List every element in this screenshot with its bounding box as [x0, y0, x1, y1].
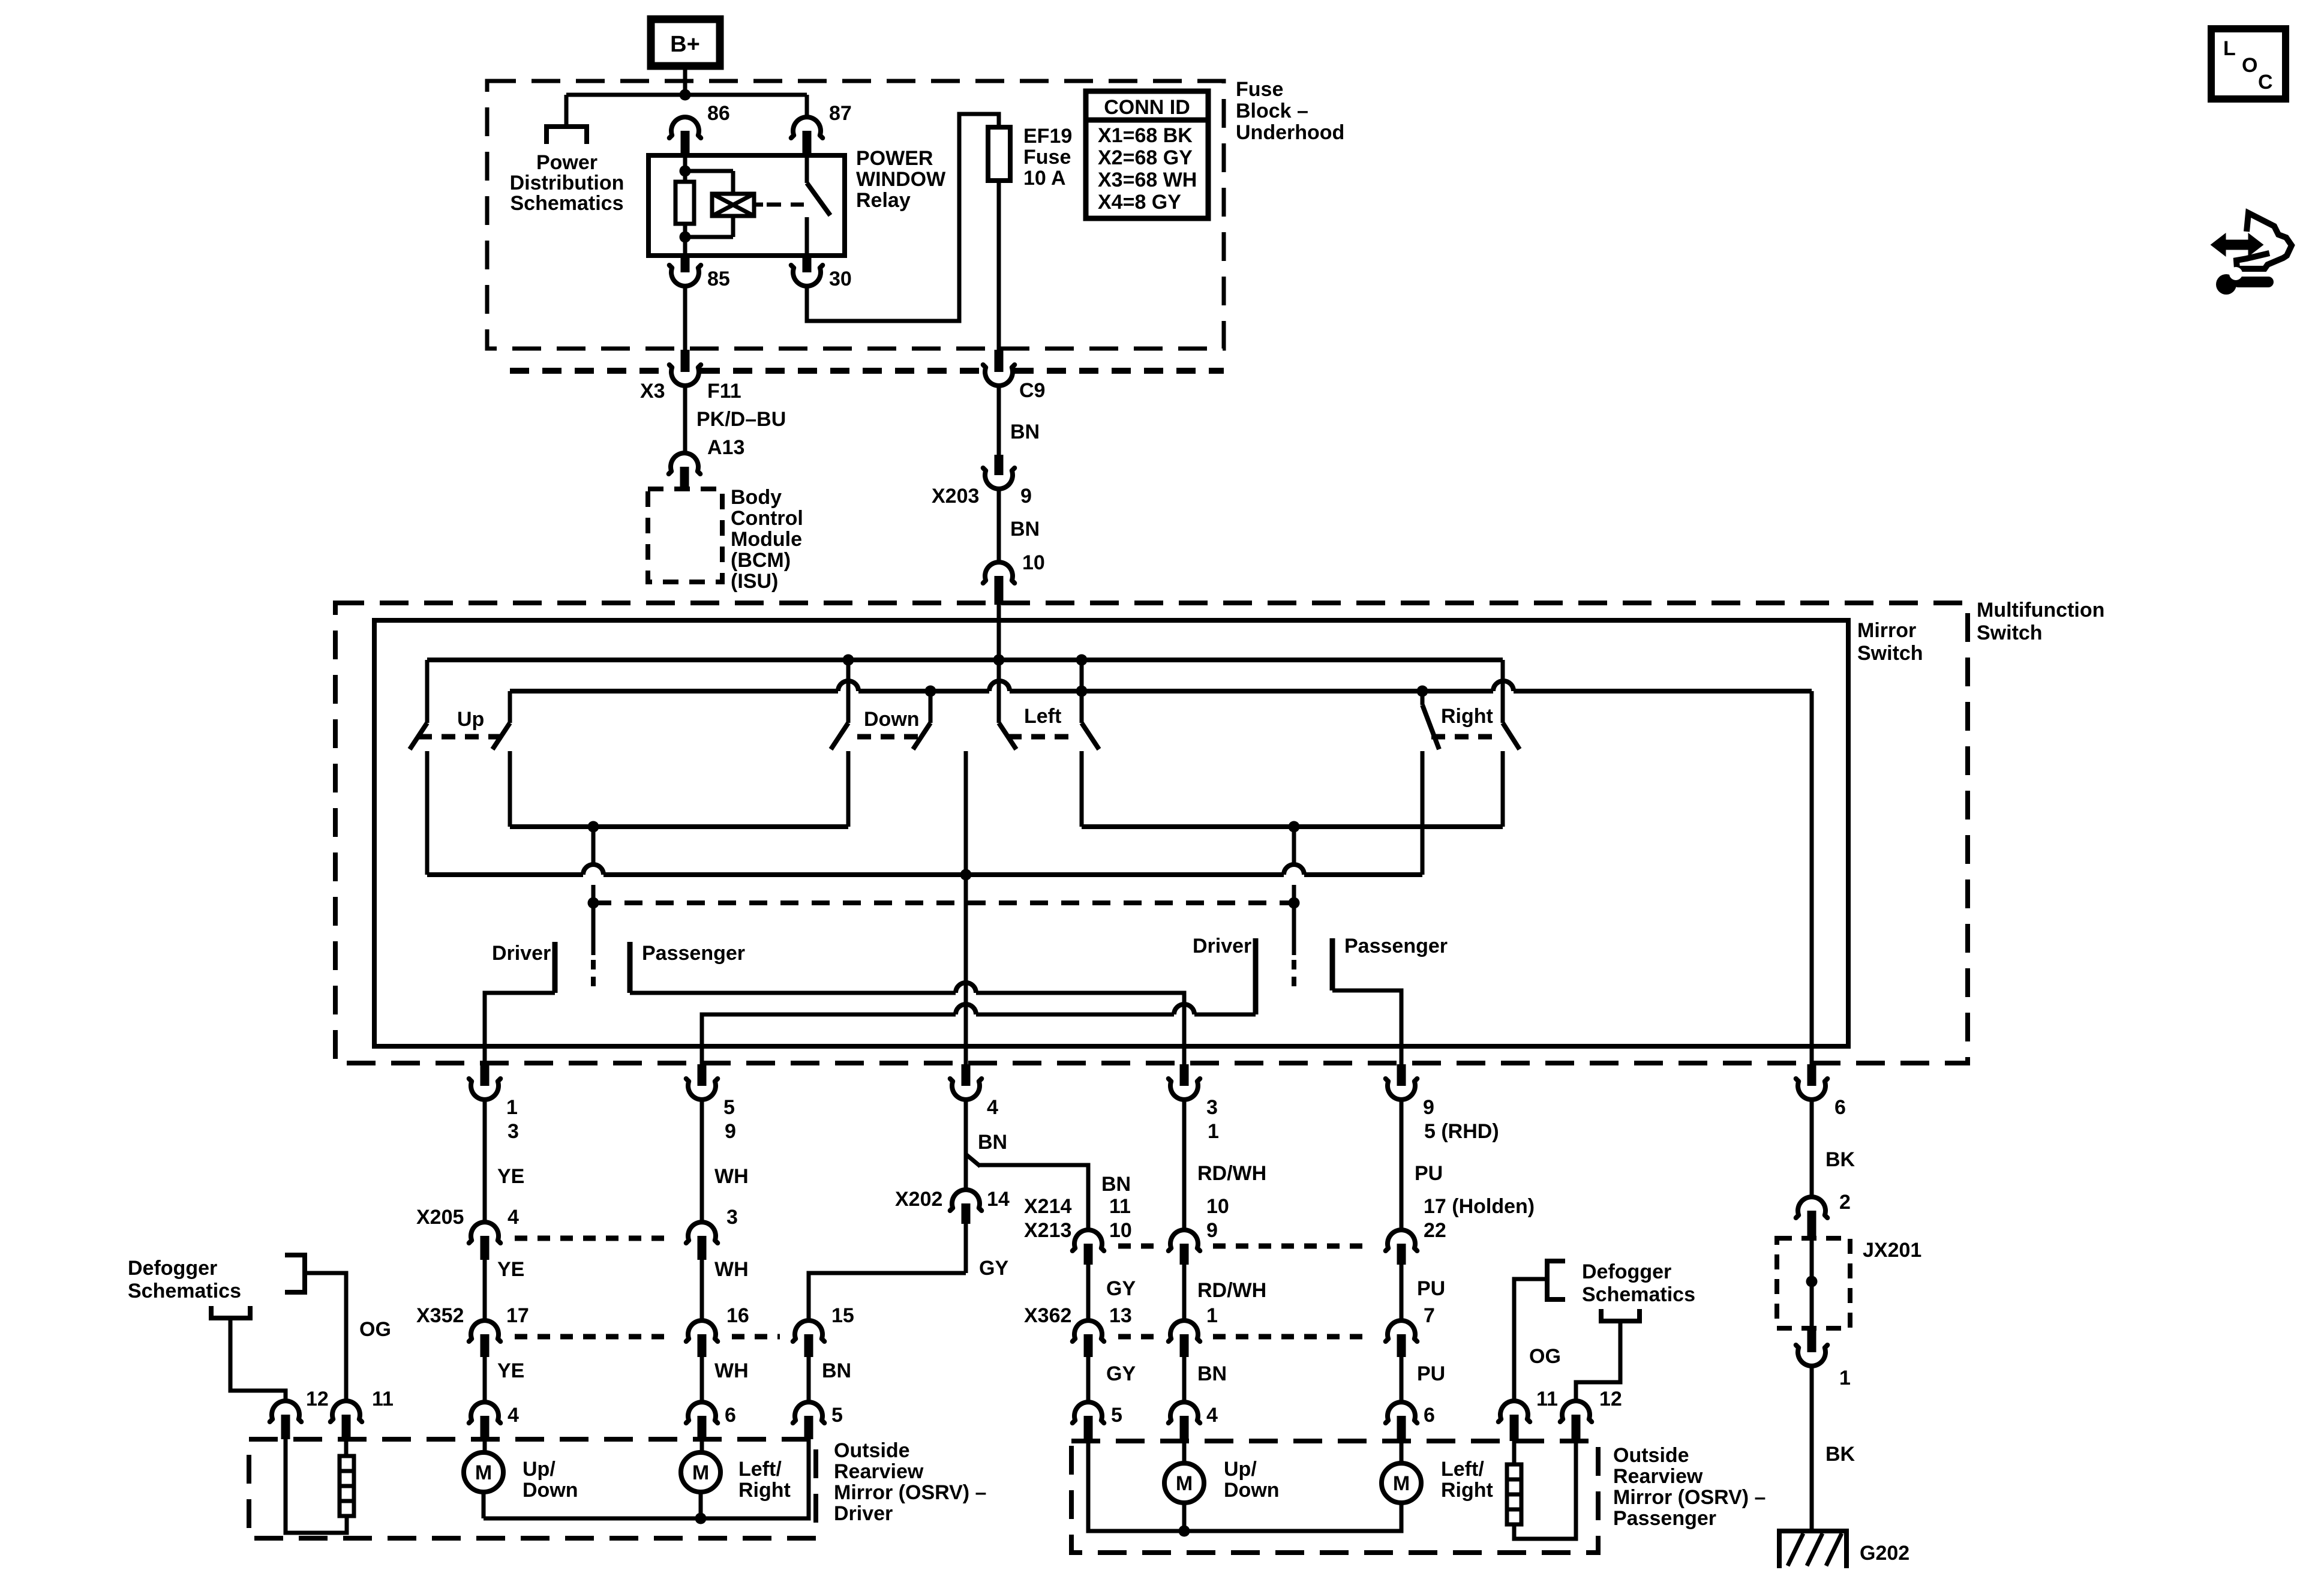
svg-text:A13: A13 — [707, 436, 744, 459]
svg-text:OG: OG — [359, 1318, 391, 1341]
off-page bracket defogger left lower — [211, 1306, 250, 1318]
motor driver left right — [681, 1452, 720, 1492]
svg-text:Driver: Driver — [492, 942, 551, 965]
outside rearview mirror passenger dashed box — [1071, 1441, 1598, 1553]
down switch left lead — [846, 660, 851, 723]
wire YE lower — [483, 1357, 487, 1401]
connector X205 dashed row — [515, 1236, 672, 1241]
svg-text:L: L — [2223, 37, 2236, 60]
relay coil branch wire — [683, 155, 687, 182]
svg-text:X203: X203 — [932, 485, 979, 508]
connector X352 pin 17 — [469, 1320, 501, 1341]
relay pin 87 connector — [791, 117, 823, 138]
LOC reference icon — [2211, 29, 2286, 99]
driver mirror pin 6 — [686, 1402, 718, 1423]
svg-text:X3=68 WH: X3=68 WH — [1098, 169, 1197, 191]
ground G202 — [1779, 1531, 1846, 1568]
wire passenger output 3 — [630, 991, 956, 995]
svg-text:X213: X213 — [1024, 1219, 1071, 1242]
B+ battery feed box — [651, 19, 720, 66]
wire defogger right feed — [1576, 1321, 1620, 1400]
down switch left blade — [831, 723, 848, 749]
up switch linkage — [418, 734, 503, 740]
signal rail left segment — [510, 824, 848, 829]
svg-text:Down: Down — [864, 708, 920, 731]
right selector driver contact bar — [1253, 938, 1259, 1014]
right switch left lower lead — [1421, 751, 1425, 875]
wire BK column upper — [1810, 1101, 1814, 1196]
svg-text:Defogger: Defogger — [128, 1257, 217, 1280]
wire driver leftright motor — [700, 1439, 704, 1452]
wire BK to ground — [1810, 1365, 1814, 1531]
connector A13 into BCM — [669, 453, 701, 474]
svg-text:4: 4 — [508, 1206, 519, 1229]
left switch right lower lead — [1080, 751, 1084, 827]
svg-text:5 (RHD): 5 (RHD) — [1424, 1120, 1499, 1143]
svg-text:Up: Up — [457, 708, 484, 731]
wire BN lower driver — [807, 1357, 811, 1401]
svg-text:3: 3 — [1206, 1096, 1218, 1119]
svg-text:1: 1 — [1839, 1367, 1851, 1389]
svg-text:Driver: Driver — [834, 1502, 893, 1525]
defogger element right — [1507, 1464, 1521, 1524]
connector X352 pin 16 — [686, 1320, 718, 1341]
junction JX201 dashed box — [1777, 1238, 1850, 1328]
svg-text:Up/: Up/ — [1224, 1458, 1257, 1481]
svg-text:Outside: Outside — [834, 1439, 910, 1462]
defogger element right wires — [1512, 1441, 1517, 1464]
shared lower contact lead — [964, 751, 968, 875]
svg-text:11: 11 — [1109, 1195, 1131, 1218]
wire GY passenger common mid — [1086, 1265, 1091, 1319]
wire PU column upper — [1400, 1101, 1404, 1229]
svg-text:9: 9 — [1206, 1219, 1218, 1242]
motor passenger up down — [1164, 1463, 1204, 1503]
relay coil actuator dashed link — [754, 203, 763, 207]
svg-text:5: 5 — [831, 1404, 843, 1427]
svg-text:17: 17 — [506, 1304, 529, 1327]
svg-text:9: 9 — [725, 1120, 736, 1143]
signal rail right segment — [1082, 824, 1503, 829]
wire defogger left feed — [230, 1318, 286, 1400]
svg-text:X4=8 GY: X4=8 GY — [1098, 191, 1181, 214]
conn id table — [1086, 91, 1208, 218]
svg-text:10: 10 — [1022, 551, 1045, 574]
svg-text:Passenger: Passenger — [1344, 935, 1448, 957]
connector row X3 C9 dashed line — [510, 368, 669, 374]
bus wire from B+ — [566, 93, 807, 97]
connector X202 pin 14 — [950, 1190, 982, 1211]
svg-text:3: 3 — [726, 1206, 738, 1229]
wire OG right — [1514, 1279, 1547, 1400]
mirror switch output connector pin 1 — [469, 1079, 501, 1100]
svg-text:86: 86 — [707, 102, 730, 125]
driver mirror common bus — [484, 1439, 809, 1518]
wire pin 30 to fuse — [807, 114, 999, 321]
wire X203 to mirror switch — [997, 488, 1001, 562]
wire PU mid — [1400, 1265, 1404, 1319]
svg-text:2: 2 — [1839, 1191, 1851, 1214]
svg-text:M: M — [1393, 1472, 1410, 1495]
wire bus to pin 87 — [805, 95, 809, 116]
svg-text:Control: Control — [731, 507, 803, 530]
svg-text:RD/WH: RD/WH — [1197, 1279, 1266, 1302]
svg-text:BN: BN — [1010, 421, 1040, 443]
svg-text:30: 30 — [829, 268, 852, 290]
wire driver updown motor — [483, 1439, 487, 1452]
left selector pole open contact — [591, 960, 596, 991]
multifunction switch dashed box — [335, 603, 1968, 1063]
svg-text:11: 11 — [1536, 1388, 1558, 1410]
svg-text:4: 4 — [987, 1096, 998, 1119]
svg-text:Right: Right — [738, 1479, 791, 1502]
connector X214 X213 pin 11 10 — [1073, 1230, 1104, 1251]
connector X214 X213 pin 10 9 — [1169, 1230, 1200, 1251]
svg-text:Up/: Up/ — [523, 1458, 556, 1481]
wire BN common upper — [964, 1101, 968, 1188]
svg-text:Underhood: Underhood — [1236, 121, 1344, 144]
down switch right lead — [929, 691, 933, 723]
wire pin 85 down to X3 — [683, 286, 687, 352]
svg-text:RD/WH: RD/WH — [1197, 1162, 1266, 1185]
wire WH column upper — [700, 1101, 704, 1221]
wire OG left — [305, 1273, 346, 1400]
defogger element left wires — [344, 1439, 349, 1456]
wire B+ to bus — [683, 66, 687, 95]
svg-text:X3: X3 — [640, 380, 665, 403]
svg-text:OG: OG — [1529, 1345, 1561, 1368]
connector X362 pin 13 — [1073, 1320, 1104, 1341]
svg-text:10: 10 — [1109, 1219, 1132, 1242]
svg-text:Fuse: Fuse — [1236, 78, 1283, 101]
wire driver output 5 — [1194, 1013, 1256, 1017]
wire WH middle — [700, 1260, 704, 1320]
relay resistor — [675, 182, 694, 224]
svg-text:F11: F11 — [707, 380, 741, 403]
up switch left blade — [410, 723, 427, 749]
hop common rail over right selector — [1284, 864, 1304, 875]
svg-text:X1=68 BK: X1=68 BK — [1098, 124, 1193, 147]
mirror switch output connector pin 9 — [1386, 1079, 1418, 1100]
passenger mirror pin 6 — [1386, 1402, 1418, 1423]
svg-text:5: 5 — [1111, 1404, 1122, 1427]
svg-text:1: 1 — [1208, 1120, 1219, 1143]
svg-text:GY: GY — [979, 1257, 1008, 1280]
connector X362 dashed row — [1118, 1334, 1155, 1340]
svg-text:Switch: Switch — [1977, 622, 2043, 644]
wire passenger leftright motor — [1400, 1441, 1404, 1463]
svg-text:G202: G202 — [1860, 1542, 1909, 1565]
wire passenger updown motor — [1182, 1441, 1187, 1463]
svg-text:BN: BN — [978, 1131, 1007, 1154]
svg-text:17 (Holden): 17 (Holden) — [1424, 1195, 1535, 1218]
mirror switch output connector pin 3 — [1169, 1079, 1200, 1100]
svg-text:6: 6 — [1834, 1096, 1846, 1119]
svg-text:(ISU): (ISU) — [731, 570, 778, 593]
wire X3 to A13 — [683, 385, 687, 454]
svg-text:9: 9 — [1020, 485, 1032, 508]
svg-text:Mirror (OSRV) –: Mirror (OSRV) – — [834, 1481, 986, 1504]
svg-text:X362: X362 — [1024, 1304, 1071, 1327]
left selector driver contact bar — [553, 942, 558, 993]
right switch right lower lead — [1501, 751, 1505, 827]
svg-text:Fuse: Fuse — [1023, 146, 1071, 169]
svg-text:BK: BK — [1825, 1443, 1855, 1466]
right switch linkage — [1431, 734, 1498, 740]
svg-text:WH: WH — [714, 1165, 749, 1188]
left selector pole wire — [591, 827, 596, 864]
svg-text:M: M — [475, 1461, 492, 1484]
relay pin 30 connector — [791, 265, 823, 286]
wire ground output 6 — [1810, 691, 1814, 1065]
svg-text:16: 16 — [726, 1304, 749, 1327]
svg-text:Defogger: Defogger — [1582, 1260, 1671, 1283]
selector linkage dashed — [593, 900, 1294, 905]
connector X205 pin 4 — [469, 1222, 501, 1243]
wire pin 10 to bus — [997, 605, 1001, 660]
right selector passenger contact bar — [1330, 938, 1335, 990]
svg-text:4: 4 — [1206, 1404, 1218, 1427]
connector X352 pin 15 — [793, 1320, 825, 1341]
svg-text:BN: BN — [1197, 1362, 1227, 1385]
wire BN lower passenger — [1182, 1357, 1187, 1401]
svg-text:7: 7 — [1424, 1304, 1435, 1327]
svg-text:Rearview: Rearview — [1613, 1465, 1703, 1488]
svg-text:X205: X205 — [416, 1206, 464, 1229]
svg-text:BK: BK — [1825, 1148, 1855, 1171]
svg-text:Relay: Relay — [856, 189, 911, 212]
mirror switch box — [374, 620, 1848, 1046]
left switch left blade — [999, 723, 1016, 749]
svg-text:Distribution: Distribution — [510, 172, 624, 194]
left switch right lead — [1080, 691, 1084, 723]
svg-text:Schematics: Schematics — [1582, 1283, 1695, 1306]
wire fuse to C9 — [997, 181, 1001, 352]
left selector passenger contact bar — [627, 942, 633, 993]
svg-text:PK/D–BU: PK/D–BU — [696, 408, 786, 431]
relay coil — [712, 194, 754, 216]
svg-text:Passenger: Passenger — [1613, 1507, 1716, 1530]
right selector pole open contact — [1292, 960, 1296, 991]
svg-text:Right: Right — [1441, 1479, 1493, 1502]
svg-text:Module: Module — [731, 528, 802, 551]
svg-text:BN: BN — [822, 1359, 851, 1382]
link bus1 to bus2 — [1080, 660, 1084, 691]
left switch linkage — [1008, 734, 1074, 740]
wire GY from X202 — [964, 1224, 968, 1273]
right switch right blade — [1503, 723, 1520, 749]
right switch right lead — [1501, 660, 1505, 723]
relay switch fixed contact — [805, 155, 809, 183]
svg-text:GY: GY — [1106, 1362, 1136, 1385]
off-page bracket power distribution — [547, 127, 587, 144]
svg-text:JX201: JX201 — [1863, 1239, 1921, 1262]
svg-text:YE: YE — [497, 1258, 524, 1281]
defogger element left — [340, 1456, 354, 1516]
svg-text:Down: Down — [1224, 1479, 1280, 1502]
wire RD/WH column upper — [1182, 1101, 1187, 1229]
right switch left lead — [1421, 691, 1425, 705]
svg-text:YE: YE — [497, 1165, 524, 1188]
body control module dashed box — [648, 489, 722, 582]
wire PU lower — [1400, 1357, 1404, 1401]
svg-text:Power: Power — [536, 151, 597, 174]
connector C9 — [983, 365, 1015, 386]
svg-text:Passenger: Passenger — [642, 942, 745, 965]
connector X205 pin 3 — [686, 1222, 718, 1243]
mirror switch output connector pin 6 — [1796, 1079, 1828, 1100]
up switch right lead — [508, 691, 512, 723]
svg-text:87: 87 — [829, 102, 852, 125]
svg-text:YE: YE — [497, 1359, 524, 1382]
connector X3 F11 — [669, 365, 701, 386]
svg-text:10: 10 — [1206, 1195, 1229, 1218]
connector defogger pin 11 right — [1499, 1401, 1530, 1422]
orientation icon vehicle arrow wrench — [2236, 213, 2292, 269]
off-page bracket defogger left upper — [285, 1255, 305, 1292]
up switch right lower lead — [508, 751, 512, 827]
hop common rail over left selector — [583, 864, 603, 875]
motor passenger left right — [1382, 1463, 1421, 1503]
bus B+ top — [427, 658, 1503, 662]
connector defogger pin 12 right — [1560, 1401, 1592, 1422]
svg-text:M: M — [692, 1461, 709, 1484]
down switch right blade — [913, 723, 930, 749]
wire inside JX201 — [1810, 1238, 1814, 1328]
passenger mirror pin 4 — [1169, 1402, 1200, 1423]
svg-text:4: 4 — [508, 1404, 519, 1427]
driver mirror pin 4 — [469, 1402, 501, 1423]
hop bus2 over right switch lead — [1493, 681, 1514, 691]
svg-text:WINDOW: WINDOW — [856, 168, 946, 191]
svg-text:10 A: 10 A — [1023, 167, 1066, 190]
right switch left blade — [1422, 705, 1439, 749]
wire GY to X352 pin 15 — [809, 1273, 966, 1321]
connector defogger pin 11 left — [331, 1401, 362, 1422]
svg-text:X2=68 GY: X2=68 GY — [1098, 146, 1193, 169]
svg-text:EF19: EF19 — [1023, 125, 1072, 148]
svg-text:85: 85 — [707, 268, 730, 290]
wire YE column upper — [483, 1101, 487, 1221]
svg-text:POWER: POWER — [856, 147, 933, 170]
svg-text:C: C — [2258, 71, 2273, 94]
svg-text:X214: X214 — [1024, 1195, 1071, 1218]
power window relay box — [648, 155, 845, 256]
svg-text:12: 12 — [306, 1388, 329, 1410]
relay pin 86 connector — [669, 117, 701, 138]
connector defogger pin 12 left — [270, 1401, 302, 1422]
svg-text:Body: Body — [731, 486, 782, 509]
hop driver line over column 1610 — [956, 1004, 976, 1014]
off-page bracket defogger right lower — [1601, 1309, 1640, 1321]
svg-text:WH: WH — [714, 1258, 749, 1281]
svg-text:GY: GY — [1106, 1277, 1136, 1300]
svg-text:CONN ID: CONN ID — [1104, 96, 1190, 119]
svg-text:Schematics: Schematics — [128, 1280, 241, 1302]
driver mirror pin 5 — [793, 1402, 825, 1423]
hop passenger line over common column — [956, 983, 976, 993]
svg-text:6: 6 — [725, 1404, 736, 1427]
wire common output 4 — [964, 875, 968, 1065]
svg-text:Down: Down — [523, 1479, 578, 1502]
connector X362 pin 7 — [1386, 1320, 1418, 1341]
outside rearview mirror driver dashed box — [249, 1439, 816, 1538]
wire passenger output 9 — [1332, 990, 1401, 1065]
bus ground second — [510, 689, 838, 694]
mirror switch output connector pin 4 — [950, 1079, 982, 1100]
svg-text:(BCM): (BCM) — [731, 549, 791, 572]
svg-text:Right: Right — [1441, 705, 1493, 728]
hop bus2 over left switch lead — [989, 681, 1010, 691]
svg-text:Left/: Left/ — [738, 1458, 782, 1481]
svg-text:Mirror: Mirror — [1857, 619, 1916, 642]
hop bus2 over down switch lead — [838, 681, 858, 691]
wire driver output 1 — [485, 993, 555, 1065]
svg-text:X352: X352 — [416, 1304, 464, 1327]
svg-text:12: 12 — [1599, 1388, 1622, 1410]
branch wire BN to passenger — [966, 1154, 980, 1166]
svg-text:Left/: Left/ — [1441, 1458, 1484, 1481]
svg-text:15: 15 — [831, 1304, 854, 1327]
svg-text:C9: C9 — [1019, 379, 1045, 402]
common rail — [427, 872, 583, 877]
connector pin 1 below JX201 — [1796, 1345, 1828, 1366]
svg-text:22: 22 — [1424, 1219, 1446, 1242]
off-page bracket defogger right upper — [1547, 1261, 1565, 1299]
left switch left lead — [997, 660, 1001, 723]
passenger mirror pin 5 — [1073, 1402, 1104, 1423]
wire RD/WH mid — [1182, 1265, 1187, 1319]
svg-text:PU: PU — [1415, 1162, 1443, 1185]
connector X214 X213 dashed row — [1118, 1244, 1155, 1249]
hop driver line over column 1974 — [1174, 1004, 1194, 1014]
mirror switch output connector pin 5 — [686, 1079, 718, 1100]
svg-text:BN: BN — [1010, 518, 1040, 541]
svg-text:14: 14 — [987, 1188, 1010, 1211]
svg-text:Mirror (OSRV) –: Mirror (OSRV) – — [1613, 1486, 1765, 1509]
passenger mirror common bus — [1088, 1441, 1401, 1531]
svg-text:11: 11 — [372, 1388, 394, 1410]
wire GY lower — [1086, 1357, 1091, 1401]
svg-text:1: 1 — [506, 1096, 518, 1119]
connector X214 X213 pin 17 22 — [1386, 1230, 1418, 1251]
right selector pole wire — [1292, 827, 1296, 864]
svg-text:Block –: Block – — [1236, 100, 1308, 122]
svg-text:WH: WH — [714, 1359, 749, 1382]
svg-text:Multifunction: Multifunction — [1977, 599, 2104, 622]
relay resistor bottom wire — [683, 224, 687, 256]
connector X362 pin 1 — [1169, 1320, 1200, 1341]
connector X352 dashed row — [515, 1334, 672, 1340]
svg-text:1: 1 — [1206, 1304, 1218, 1327]
svg-text:5: 5 — [723, 1096, 735, 1119]
svg-text:PU: PU — [1417, 1362, 1445, 1385]
svg-text:B+: B+ — [670, 32, 700, 57]
up switch left lead — [425, 660, 430, 723]
fuse EF19 — [988, 127, 1010, 181]
svg-text:X202: X202 — [895, 1188, 942, 1211]
connector pin 2 BK — [1796, 1197, 1828, 1218]
down switch left lower lead — [846, 751, 851, 827]
motor driver up down — [464, 1452, 503, 1492]
svg-text:Outside: Outside — [1613, 1444, 1689, 1467]
svg-text:O: O — [2242, 54, 2257, 77]
connector pin 10 into multifunction switch — [983, 562, 1015, 583]
relay switch lower contact — [805, 217, 809, 256]
svg-text:Left: Left — [1024, 705, 1061, 728]
down switch linkage — [857, 734, 924, 740]
svg-text:BN: BN — [1101, 1173, 1131, 1196]
